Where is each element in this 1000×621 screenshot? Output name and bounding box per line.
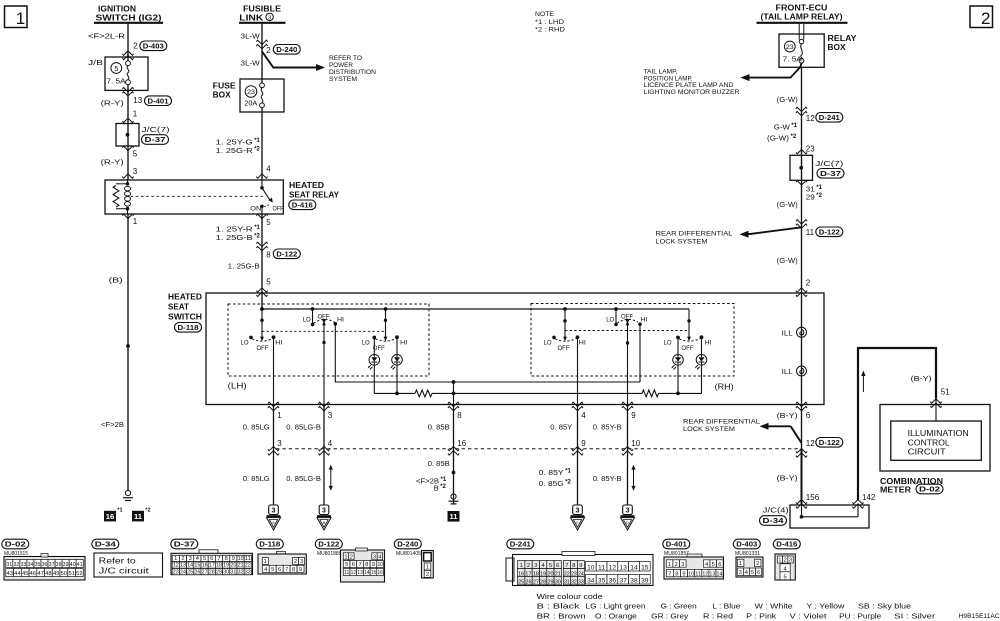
svg-text:37: 37 [49, 562, 55, 568]
svg-text:R : Red: R : Red [703, 612, 733, 621]
svg-text:FUSE: FUSE [213, 81, 236, 90]
svg-text:16: 16 [106, 512, 114, 521]
svg-text:4: 4 [266, 165, 271, 174]
svg-text:D-37: D-37 [174, 540, 195, 549]
svg-text:23: 23 [247, 89, 256, 96]
svg-text:B: B [323, 521, 326, 525]
svg-text:*1: *1 [117, 508, 122, 514]
svg-text:0. 85G: 0. 85G [539, 479, 564, 488]
svg-text:FRONT-ECU: FRONT-ECU [776, 3, 828, 12]
svg-text:3: 3 [681, 562, 684, 568]
svg-text:SB : Sky blue: SB : Sky blue [858, 602, 911, 611]
svg-text:29: 29 [216, 569, 222, 575]
RH selector wiper arrow [626, 321, 630, 325]
svg-text:51: 51 [69, 571, 76, 577]
svg-text:D-02: D-02 [919, 485, 940, 494]
svg-text:33: 33 [245, 569, 251, 575]
LH sw1 HI wire to pin 1 [273, 337, 275, 405]
svg-text:0. 85B: 0. 85B [428, 423, 450, 432]
svg-text:8: 8 [225, 556, 228, 562]
svg-text:HI: HI [705, 340, 712, 347]
svg-text:(LH): (LH) [228, 382, 247, 391]
chevrons into combination meter pin 51 [930, 399, 941, 408]
svg-text:6: 6 [757, 570, 760, 576]
connector pill D-02 [916, 484, 943, 494]
svg-text:*1: *1 [816, 185, 822, 191]
svg-text:W : White: W : White [755, 602, 793, 611]
svg-text:1. 25G-B: 1. 25G-B [228, 261, 260, 270]
svg-text:9: 9 [631, 411, 636, 420]
combination meter box [880, 405, 990, 472]
svg-text:5: 5 [114, 66, 118, 73]
svg-text:2: 2 [181, 556, 184, 562]
svg-text:HI: HI [400, 340, 407, 347]
branch arrow to tail lamp system [749, 63, 802, 77]
svg-text:8: 8 [292, 567, 295, 573]
svg-text:29: 29 [806, 192, 815, 201]
svg-text:34: 34 [28, 562, 34, 568]
connector pill D-401 bottom [663, 539, 690, 549]
svg-text:24: 24 [180, 569, 186, 575]
svg-text:J/C(4): J/C(4) [763, 506, 789, 515]
wire relay to ground (B) [127, 214, 129, 491]
svg-text:D-401: D-401 [666, 540, 687, 549]
svg-text:16: 16 [457, 439, 466, 448]
RH selector LO contact from bus [614, 307, 618, 311]
svg-text:6: 6 [352, 562, 355, 568]
joint connector J/C(7) box left [116, 124, 139, 147]
svg-text:49: 49 [53, 571, 60, 577]
svg-text:1: 1 [133, 110, 138, 119]
connector pill D-37 left [142, 135, 169, 145]
harness chevrons pin 3 [268, 446, 279, 455]
svg-text:LO: LO [362, 340, 370, 347]
svg-text:*2: *2 [145, 508, 150, 514]
svg-text:46: 46 [30, 571, 37, 577]
LED common line RH [454, 392, 643, 394]
svg-text:LINK: LINK [239, 13, 263, 22]
svg-text:26: 26 [194, 569, 200, 575]
svg-text:7. 5A: 7. 5A [107, 76, 126, 85]
wire into illumination circuit [935, 400, 937, 422]
svg-text:3: 3 [277, 439, 282, 448]
svg-text:34: 34 [587, 579, 595, 585]
connector chevrons D-122 middle [256, 242, 267, 251]
wire J/B to J/C(7) [127, 85, 129, 119]
svg-text:NOTE: NOTE [535, 11, 555, 18]
RH mechanical link dashed [565, 330, 689, 332]
svg-text:G : Green: G : Green [661, 602, 697, 611]
svg-text:0. 85LG-B: 0. 85LG-B [286, 423, 321, 432]
svg-text:ILL: ILL [782, 367, 793, 376]
svg-text:SI : Silver: SI : Silver [894, 612, 936, 621]
svg-text:D-37: D-37 [820, 169, 841, 178]
ground triangle C at pin 4 [573, 505, 583, 515]
svg-text:4: 4 [378, 554, 381, 560]
joint connector J/C(4) box [790, 505, 869, 528]
svg-text:MU801857: MU801857 [664, 551, 689, 557]
svg-text:14: 14 [630, 566, 638, 572]
connector pill D-240 [273, 45, 300, 55]
LH indicator switch [384, 307, 388, 311]
svg-text:(R-Y): (R-Y) [101, 158, 125, 167]
chevron out of J/C(7) right [796, 181, 807, 185]
svg-text:BOX: BOX [828, 43, 847, 52]
connector pill D-122 bottom [315, 539, 342, 549]
svg-text:23: 23 [806, 145, 815, 154]
J/C(4) internal wire [800, 515, 804, 519]
svg-text:5: 5 [751, 570, 754, 576]
pin 9 chevrons below switch box [622, 402, 633, 411]
svg-text:2: 2 [806, 279, 811, 288]
svg-text:(G-W): (G-W) [777, 95, 798, 104]
junction block J/B box [105, 57, 148, 90]
svg-text:25: 25 [518, 579, 524, 585]
bus bar under FUSIBLE LINK [239, 22, 286, 24]
svg-text:4: 4 [581, 411, 586, 420]
svg-text:22: 22 [245, 563, 251, 569]
svg-text:36: 36 [609, 579, 617, 585]
svg-text:1. 25G-R: 1. 25G-R [216, 146, 254, 155]
svg-text:38: 38 [630, 579, 638, 585]
svg-text:3L-W: 3L-W [241, 32, 261, 41]
svg-text:3: 3 [268, 16, 271, 22]
svg-text:6: 6 [806, 411, 811, 420]
svg-text:4: 4 [196, 556, 199, 562]
svg-text:4: 4 [705, 562, 708, 568]
bus bar under IGNITION SWITCH [94, 22, 163, 24]
svg-text:37: 37 [620, 579, 628, 585]
svg-text:1. 25G-B: 1. 25G-B [216, 233, 253, 242]
junction dot on ground wire [126, 344, 130, 348]
ground ref black box 16 with *1 [104, 511, 116, 522]
svg-text:LIGHTING MONITOR BUZZER: LIGHTING MONITOR BUZZER [644, 89, 740, 96]
svg-text:9: 9 [372, 562, 375, 568]
wire pin 8 down [453, 405, 455, 505]
svg-text:D-02: D-02 [5, 540, 26, 549]
svg-text:38: 38 [56, 562, 62, 568]
fusible link circle [799, 39, 804, 44]
chevron relay switch output [256, 214, 267, 218]
pin 4 chevrons below switch box [572, 402, 583, 411]
svg-text:D: D [626, 521, 629, 525]
ground triangle D at pin 9 [623, 505, 633, 515]
svg-text:39: 39 [63, 562, 69, 568]
connector pill D-122 lower [816, 438, 843, 448]
connector pill D-401 [145, 96, 172, 106]
switch feed bus wire y=309 [261, 293, 263, 309]
svg-text:*2 : RHD: *2 : RHD [535, 27, 565, 34]
svg-text:14: 14 [364, 570, 370, 576]
svg-text:0. 85Y: 0. 85Y [539, 468, 564, 477]
svg-text:D-240: D-240 [276, 45, 297, 54]
svg-text:HEATED: HEATED [289, 181, 324, 190]
svg-text:15: 15 [371, 570, 377, 576]
harness chevrons pin 4 [318, 446, 329, 455]
LH selector center wire to pin 3 [323, 321, 325, 405]
svg-text:1: 1 [133, 217, 138, 226]
svg-text:31: 31 [564, 579, 570, 585]
svg-text:D-122: D-122 [276, 250, 297, 259]
svg-text:30: 30 [555, 579, 561, 585]
svg-text:LO: LO [606, 317, 614, 324]
svg-text:LO: LO [664, 340, 672, 347]
LH heater power switch [260, 319, 263, 322]
svg-text:35: 35 [35, 562, 41, 568]
connector drawing D-02 [4, 557, 85, 581]
svg-text:3: 3 [328, 411, 333, 420]
svg-text:5: 5 [203, 556, 206, 562]
svg-text:SWITCH: SWITCH [168, 313, 202, 322]
svg-text:D-34: D-34 [763, 516, 785, 525]
LED indicator LH high [392, 355, 403, 366]
pin 3 chevrons below switch box [318, 402, 329, 411]
svg-text:0. 85Y-B: 0. 85Y-B [593, 423, 622, 432]
svg-text:<F>2B: <F>2B [101, 420, 124, 429]
wire pin 4 down [577, 405, 579, 505]
svg-text:*2: *2 [440, 484, 446, 490]
svg-text:3: 3 [373, 554, 376, 560]
branch wire to power distribution [262, 52, 317, 68]
ILL lamp 2 [797, 366, 807, 376]
svg-text:10: 10 [688, 571, 694, 577]
ILL lamp wire from pin 2 [801, 293, 803, 405]
svg-text:1: 1 [344, 554, 347, 560]
harness dashed line [276, 448, 801, 450]
svg-text:2: 2 [675, 562, 678, 568]
pin 8 chevrons below switch box [448, 402, 459, 411]
svg-text:HI: HI [275, 340, 282, 347]
svg-text:7: 7 [668, 571, 671, 577]
svg-text:9: 9 [232, 556, 235, 562]
svg-text:D-416: D-416 [292, 201, 313, 210]
svg-text:44: 44 [14, 571, 21, 577]
page number box 2 (top right) [970, 6, 993, 28]
svg-text:J/B: J/B [88, 58, 103, 67]
svg-text:13: 13 [709, 571, 715, 577]
svg-text:D-416: D-416 [776, 540, 797, 549]
svg-text:(R-Y): (R-Y) [101, 98, 125, 107]
svg-text:OFF: OFF [257, 345, 269, 352]
svg-text:2: 2 [133, 42, 138, 51]
svg-text:J/C(7): J/C(7) [815, 159, 843, 168]
connector drawing D-416 [775, 554, 795, 580]
svg-text:43: 43 [7, 571, 14, 577]
connector drawing D-241 [506, 558, 514, 581]
svg-text:DISTRIBUTION: DISTRIBUTION [329, 69, 376, 76]
harness chevrons pin 9 [572, 446, 583, 455]
connector chevrons D-403 [122, 51, 133, 60]
svg-text:13: 13 [357, 570, 363, 576]
svg-text:4: 4 [745, 570, 748, 576]
wire fusible link down [261, 24, 263, 83]
svg-text:LO: LO [241, 340, 249, 347]
svg-text:36: 36 [42, 562, 48, 568]
svg-text:2: 2 [350, 554, 353, 560]
svg-text:23: 23 [786, 44, 795, 51]
svg-text:7: 7 [285, 567, 288, 573]
svg-text:OFF: OFF [558, 345, 570, 352]
svg-text:4: 4 [328, 439, 333, 448]
relay switch pivot [261, 180, 263, 186]
wire ignition to J/B [127, 24, 129, 61]
svg-text:D-403: D-403 [143, 42, 164, 51]
svg-text:LO: LO [544, 340, 552, 347]
svg-text:D-37: D-37 [145, 135, 166, 144]
svg-text:30: 30 [223, 569, 229, 575]
svg-text:D-34: D-34 [95, 540, 117, 549]
svg-text:8: 8 [365, 562, 368, 568]
svg-text:0. 85LG: 0. 85LG [243, 474, 270, 483]
svg-text:14: 14 [187, 563, 193, 569]
svg-text:1: 1 [277, 411, 282, 420]
connector pill D-403 [140, 41, 167, 51]
illumination control circuit inner box [891, 421, 982, 460]
svg-text:10: 10 [238, 556, 244, 562]
connector drawing D-37 [199, 550, 218, 554]
svg-text:ILLUMINATION: ILLUMINATION [908, 429, 969, 438]
svg-text:D-118: D-118 [178, 323, 199, 332]
harness chevrons pin 12 [796, 449, 807, 458]
svg-text:C: C [576, 521, 579, 525]
thick wire (B-Y) to J/C(4) [801, 449, 803, 505]
LED indicator LH low [369, 355, 380, 366]
svg-text:LO: LO [303, 317, 311, 324]
svg-text:28: 28 [540, 579, 546, 585]
svg-text:HI: HI [579, 340, 586, 347]
svg-text:7: 7 [359, 562, 362, 568]
svg-text:17: 17 [209, 563, 215, 569]
adjuster arrow at pin 3 wire [330, 469, 332, 487]
svg-text:Wire colour code: Wire colour code [537, 592, 603, 601]
wire pin 1 down [273, 405, 275, 505]
svg-text:Y : Yellow: Y : Yellow [806, 602, 845, 611]
svg-text:(B-Y): (B-Y) [911, 374, 933, 383]
chevrons into J/C(4) pin 142 [852, 500, 863, 509]
bus bar under FRONT-ECU [757, 22, 848, 24]
svg-text:5: 5 [712, 562, 715, 568]
svg-text:26: 26 [525, 579, 531, 585]
svg-text:8: 8 [266, 251, 271, 260]
svg-text:(G-W): (G-W) [777, 200, 798, 209]
svg-text:3: 3 [626, 508, 630, 515]
connector pill D-416 bottom [773, 539, 800, 549]
relay contact dashed link [131, 195, 267, 197]
fusible link double line [798, 24, 800, 40]
svg-text:4: 4 [264, 567, 267, 573]
connector pill D-02 bottom [2, 539, 29, 549]
LH selector wiper arrow [322, 321, 326, 325]
svg-text:REAR DIFFERENTIAL: REAR DIFFERENTIAL [683, 418, 761, 425]
svg-text:12: 12 [702, 571, 708, 577]
svg-text:2: 2 [756, 561, 759, 567]
svg-text:D-241: D-241 [819, 113, 840, 122]
svg-text:9: 9 [581, 439, 586, 448]
svg-text:6: 6 [210, 556, 213, 562]
svg-text:*1 : LHD: *1 : LHD [535, 19, 564, 26]
svg-text:*1: *1 [565, 469, 571, 475]
svg-text:H9B15E11AC: H9B15E11AC [959, 613, 1000, 620]
svg-text:15: 15 [194, 563, 200, 569]
harness chevrons pin 16 [448, 446, 459, 455]
svg-text:156: 156 [806, 493, 820, 502]
svg-text:39: 39 [641, 579, 649, 585]
svg-text:HEATED: HEATED [168, 293, 202, 302]
svg-text:5: 5 [133, 150, 138, 159]
svg-text:2: 2 [266, 46, 271, 55]
connector drawing D-403 [736, 557, 763, 577]
LH selector LO contact from bus [311, 307, 315, 311]
fuse box [240, 79, 284, 112]
svg-text:1: 1 [778, 558, 781, 564]
svg-text:*2: *2 [791, 134, 797, 140]
svg-text:*2: *2 [254, 146, 260, 152]
svg-text:10: 10 [377, 562, 383, 568]
heated seat relay box [105, 180, 283, 214]
connector pill D-34 bottom [92, 539, 119, 549]
connector pill D-118 bottom [256, 539, 283, 549]
svg-text:33: 33 [21, 562, 27, 568]
wire pin 3 down [323, 405, 325, 505]
svg-text:35: 35 [598, 579, 606, 585]
RH heater power switch [563, 307, 567, 311]
svg-text:0. 85Y-B: 0. 85Y-B [593, 474, 622, 483]
wire pin 6 down [801, 405, 803, 449]
svg-text:J/C(7): J/C(7) [142, 125, 170, 134]
svg-text:(TAIL LAMP RELAY): (TAIL LAMP RELAY) [761, 13, 843, 22]
svg-text:14: 14 [717, 571, 723, 577]
svg-text:27: 27 [202, 569, 208, 575]
svg-text:3: 3 [272, 508, 276, 515]
svg-text:1: 1 [174, 556, 177, 562]
svg-text:25: 25 [187, 569, 193, 575]
relay OFF dashed position [264, 205, 270, 207]
svg-text:6: 6 [278, 567, 281, 573]
connector pill D-37 bottom [171, 539, 198, 549]
svg-text:*2: *2 [254, 233, 260, 239]
connector pill D-416 [289, 200, 316, 210]
svg-text:29: 29 [547, 579, 553, 585]
branch arrow to rear differential lock upper [749, 227, 802, 234]
svg-text:MU80188S: MU80188S [317, 551, 342, 557]
connector pill D-122 middle [273, 249, 300, 259]
wire front-ecu down [801, 67, 803, 155]
svg-text:48: 48 [45, 571, 52, 577]
svg-text:3: 3 [739, 570, 742, 576]
svg-text:METER: METER [880, 485, 911, 494]
svg-text:3: 3 [300, 559, 303, 565]
arrowhead to power distribution system [316, 64, 325, 71]
svg-text:13: 13 [133, 96, 142, 105]
svg-text:5: 5 [345, 562, 348, 568]
svg-text:11: 11 [449, 512, 458, 521]
connector pill D-37 right [817, 169, 844, 179]
connector drawing D-118 [276, 551, 285, 554]
svg-text:1: 1 [16, 9, 25, 28]
svg-text:OFF: OFF [273, 206, 284, 213]
svg-text:*1: *1 [441, 477, 447, 483]
svg-text:21: 21 [238, 563, 244, 569]
fuse 7.5A right [801, 44, 803, 60]
connector pill D-34 [760, 516, 787, 526]
svg-text:8: 8 [457, 411, 462, 420]
svg-text:*2: *2 [565, 480, 571, 486]
chevrons into heated seat switch pin 5 [256, 288, 267, 297]
fusible link number circle 3 [266, 13, 273, 20]
svg-text:12: 12 [609, 566, 617, 572]
connector pill D-118 [175, 323, 202, 333]
svg-text:18: 18 [216, 563, 222, 569]
